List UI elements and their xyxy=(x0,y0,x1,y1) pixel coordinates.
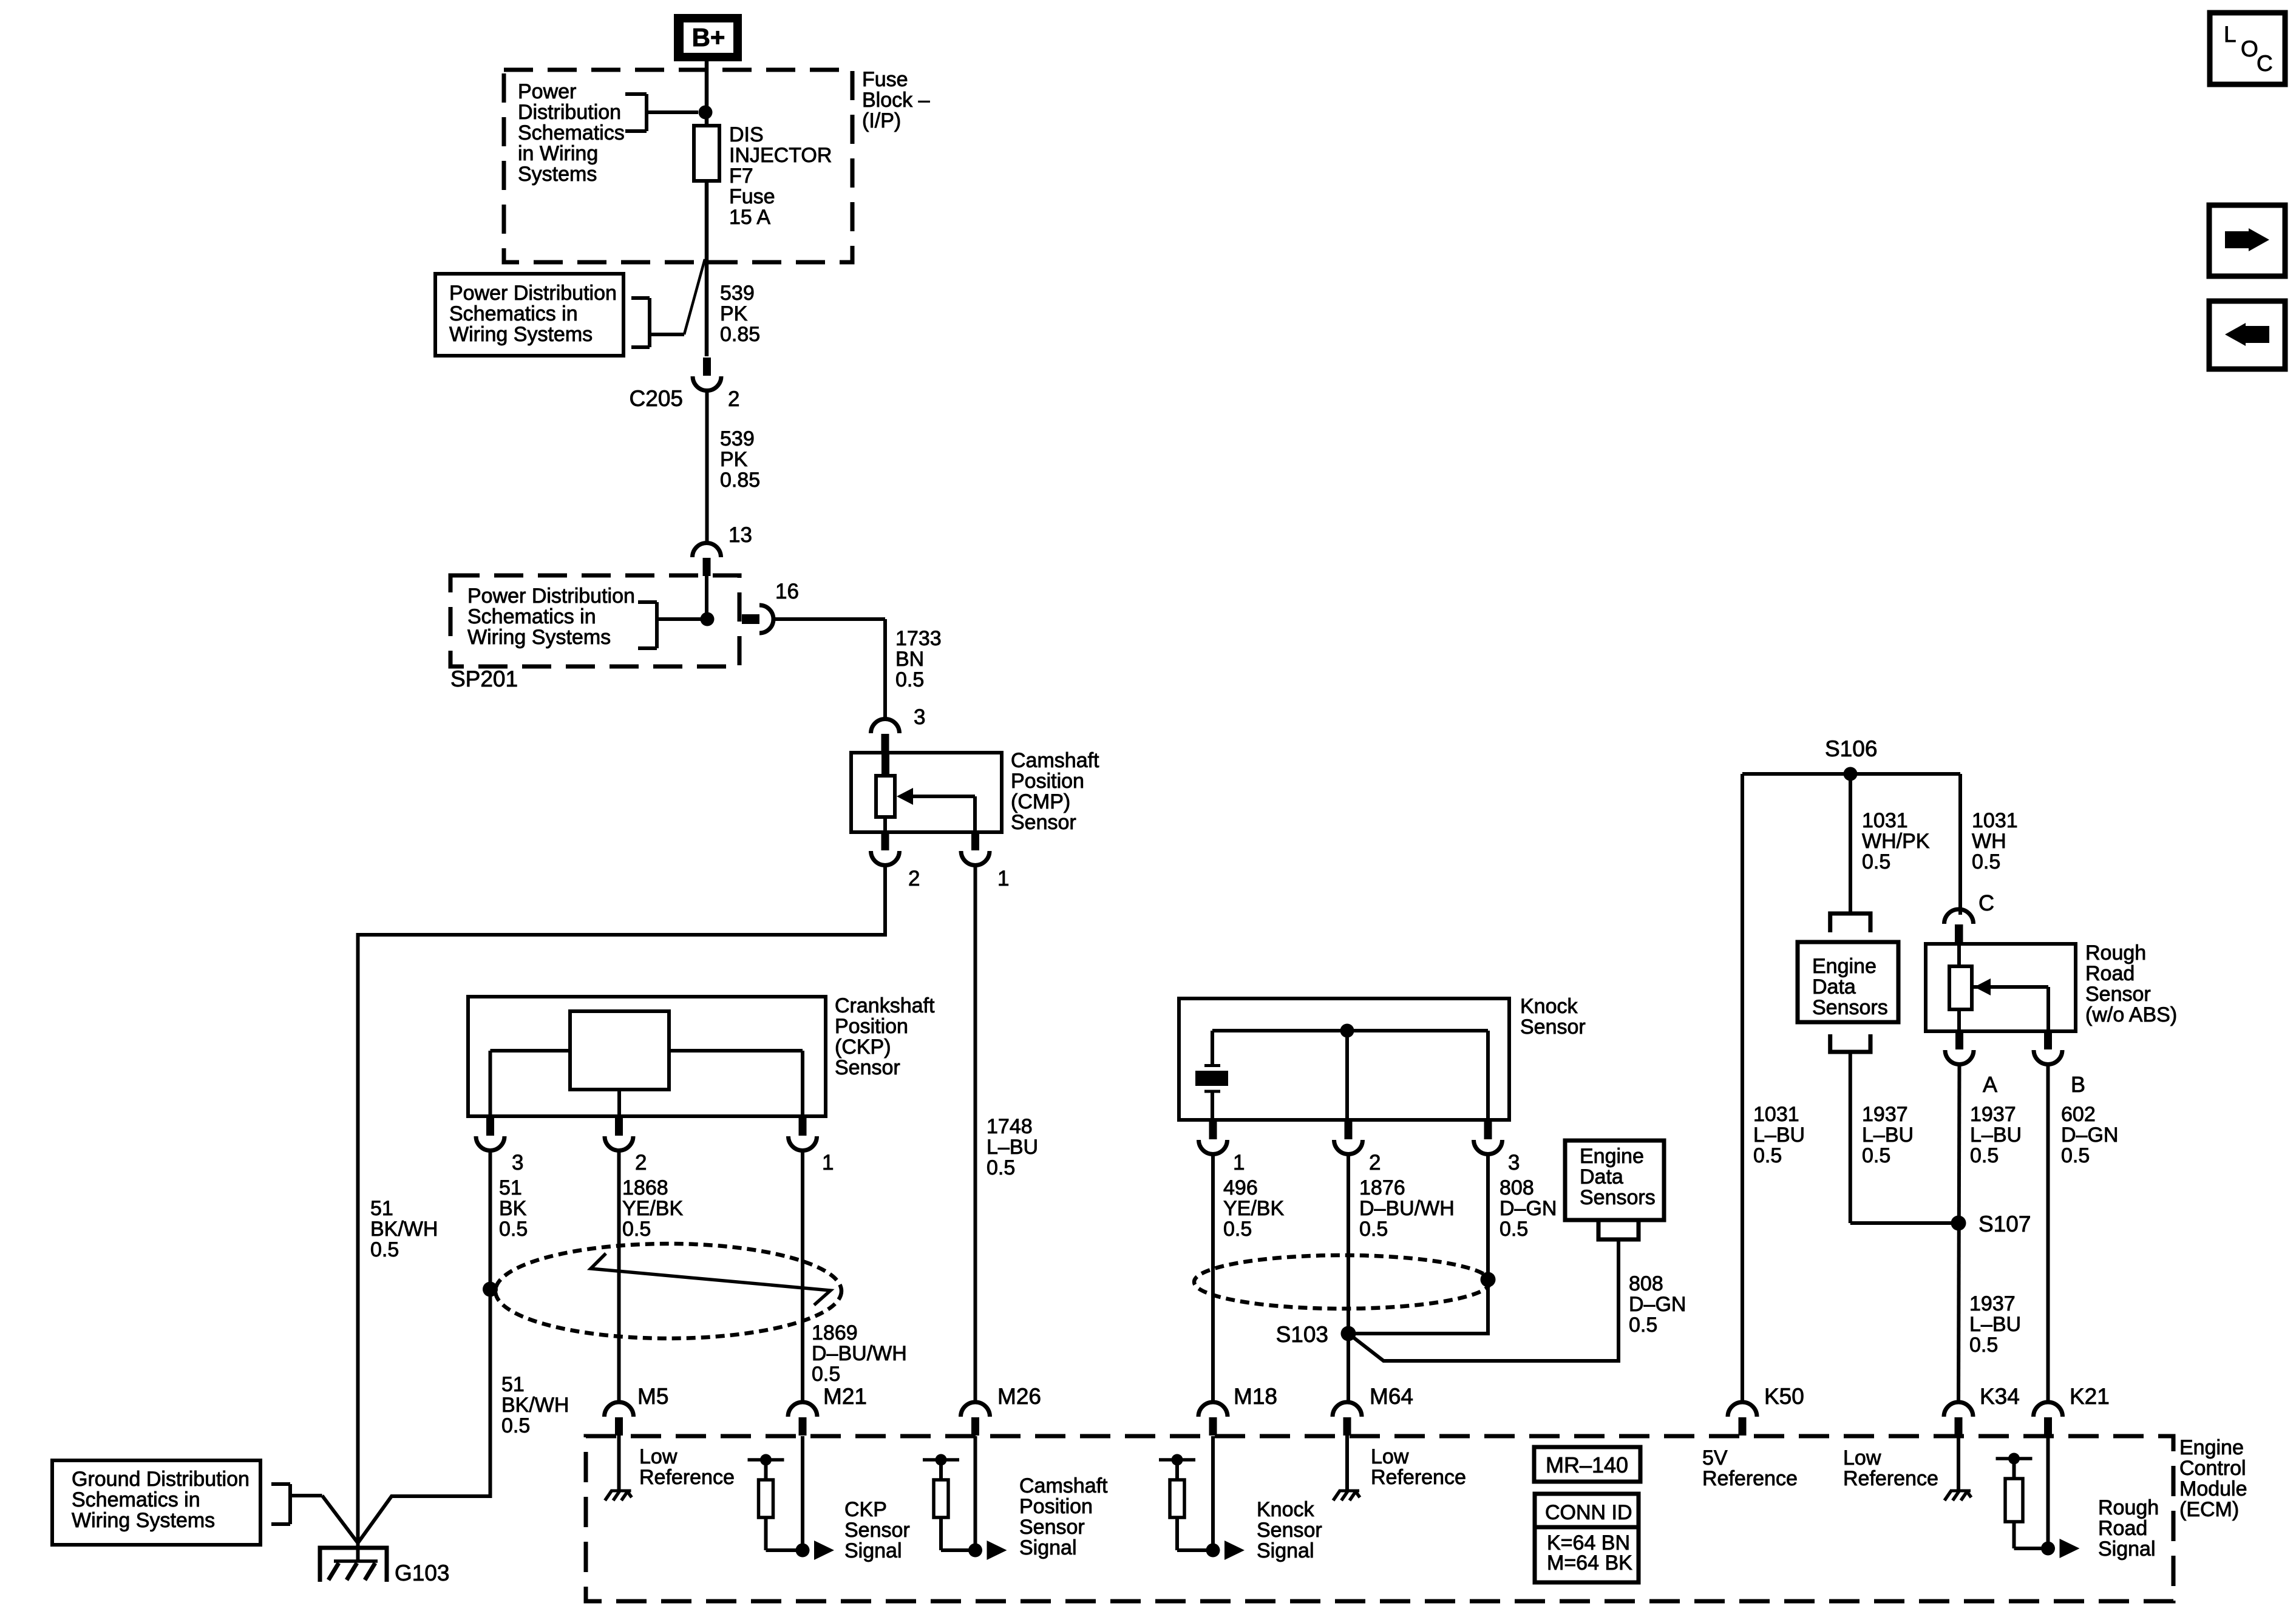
svg-text:in Wiring: in Wiring xyxy=(518,142,598,165)
svg-text:C: C xyxy=(2257,51,2273,76)
svg-text:13: 13 xyxy=(729,523,752,547)
svg-text:Signal: Signal xyxy=(844,1539,902,1562)
svg-text:Ground Distribution: Ground Distribution xyxy=(72,1468,250,1491)
svg-text:(I/P): (I/P) xyxy=(862,109,901,132)
svg-text:Sensors: Sensors xyxy=(1812,996,1888,1019)
svg-text:Systems: Systems xyxy=(518,163,597,186)
svg-text:Schematics in: Schematics in xyxy=(467,605,596,628)
svg-text:C: C xyxy=(1978,890,1994,915)
svg-text:1733: 1733 xyxy=(895,627,942,650)
svg-text:SP201: SP201 xyxy=(450,666,518,691)
svg-text:YE/BK: YE/BK xyxy=(622,1197,683,1220)
svg-text:M18: M18 xyxy=(1234,1384,1277,1409)
svg-text:3: 3 xyxy=(512,1151,523,1175)
svg-text:1937: 1937 xyxy=(1970,1103,2016,1126)
svg-text:Wiring Systems: Wiring Systems xyxy=(467,626,611,649)
svg-text:M5: M5 xyxy=(637,1384,668,1409)
svg-text:539: 539 xyxy=(720,427,755,450)
svg-text:Schematics: Schematics xyxy=(518,121,625,144)
svg-text:B: B xyxy=(2071,1072,2085,1097)
svg-text:Power: Power xyxy=(518,80,576,103)
svg-text:S107: S107 xyxy=(1978,1212,2031,1236)
svg-text:1031: 1031 xyxy=(1972,809,2018,832)
svg-text:Position: Position xyxy=(1011,770,1084,793)
svg-text:BK: BK xyxy=(499,1197,527,1220)
svg-text:D–BU/WH: D–BU/WH xyxy=(1359,1197,1455,1220)
svg-text:Knock: Knock xyxy=(1520,995,1578,1018)
svg-text:K34: K34 xyxy=(1980,1384,2020,1409)
svg-text:Engine: Engine xyxy=(1580,1145,1644,1168)
svg-text:808: 808 xyxy=(1500,1176,1534,1199)
svg-text:1: 1 xyxy=(822,1151,834,1175)
svg-text:L–BU: L–BU xyxy=(1862,1124,1914,1147)
svg-text:0.5: 0.5 xyxy=(987,1156,1015,1179)
svg-text:Sensor: Sensor xyxy=(1520,1015,1586,1039)
svg-text:Low: Low xyxy=(1843,1446,1881,1470)
svg-text:1876: 1876 xyxy=(1359,1176,1405,1199)
svg-text:Position: Position xyxy=(1019,1495,1093,1518)
svg-text:BK/WH: BK/WH xyxy=(501,1394,569,1417)
svg-text:Wiring Systems: Wiring Systems xyxy=(449,323,593,346)
svg-text:Knock: Knock xyxy=(1257,1498,1314,1521)
svg-text:Power Distribution: Power Distribution xyxy=(449,282,617,305)
svg-text:0.85: 0.85 xyxy=(720,323,760,346)
svg-text:S103: S103 xyxy=(1276,1322,1328,1347)
svg-text:1748: 1748 xyxy=(987,1115,1033,1138)
svg-text:0.5: 0.5 xyxy=(812,1363,840,1386)
svg-text:Engine: Engine xyxy=(1812,955,1877,978)
svg-text:Position: Position xyxy=(835,1015,908,1038)
svg-text:0.5: 0.5 xyxy=(2061,1144,2090,1167)
svg-text:Sensors: Sensors xyxy=(1580,1186,1656,1209)
svg-text:Power Distribution: Power Distribution xyxy=(467,585,635,608)
svg-text:Reference: Reference xyxy=(1843,1467,1938,1490)
svg-text:Block –: Block – xyxy=(862,89,930,112)
svg-text:2: 2 xyxy=(635,1151,647,1175)
svg-text:0.5: 0.5 xyxy=(1359,1218,1388,1241)
svg-text:Crankshaft: Crankshaft xyxy=(835,994,935,1017)
svg-text:L–BU: L–BU xyxy=(1970,1124,2022,1147)
svg-text:B+: B+ xyxy=(692,23,725,52)
svg-text:L: L xyxy=(2224,22,2237,47)
svg-text:0.5: 0.5 xyxy=(370,1238,399,1261)
svg-text:D–BU/WH: D–BU/WH xyxy=(812,1342,907,1365)
svg-text:G103: G103 xyxy=(395,1561,450,1585)
svg-text:0.5: 0.5 xyxy=(1223,1218,1252,1241)
svg-text:0.5: 0.5 xyxy=(1969,1334,1998,1357)
svg-text:1937: 1937 xyxy=(1969,1292,2016,1315)
svg-text:(CKP): (CKP) xyxy=(835,1036,891,1059)
svg-text:YE/BK: YE/BK xyxy=(1223,1197,1284,1220)
svg-text:Reference: Reference xyxy=(639,1466,735,1489)
svg-text:Distribution: Distribution xyxy=(518,101,621,124)
svg-text:Sensor: Sensor xyxy=(835,1056,900,1079)
svg-text:Signal: Signal xyxy=(1019,1536,1077,1559)
svg-text:3: 3 xyxy=(1508,1151,1520,1175)
svg-text:WH/PK: WH/PK xyxy=(1862,830,1930,853)
svg-text:Sensor: Sensor xyxy=(2085,983,2151,1006)
svg-text:Low: Low xyxy=(1371,1445,1409,1468)
svg-text:16: 16 xyxy=(775,580,799,603)
svg-text:MR–140: MR–140 xyxy=(1546,1453,1628,1477)
svg-text:Data: Data xyxy=(1812,975,1856,998)
svg-text:539: 539 xyxy=(720,282,755,305)
svg-text:M=64 BK: M=64 BK xyxy=(1547,1551,1632,1575)
svg-text:Module: Module xyxy=(2179,1477,2247,1500)
svg-text:2: 2 xyxy=(728,387,739,411)
svg-text:5V: 5V xyxy=(1702,1446,1728,1470)
svg-text:15 A: 15 A xyxy=(729,206,770,229)
svg-text:Schematics in: Schematics in xyxy=(449,302,578,325)
svg-text:M21: M21 xyxy=(823,1384,867,1409)
svg-text:3: 3 xyxy=(914,705,925,729)
svg-text:M64: M64 xyxy=(1370,1384,1413,1409)
svg-text:CONN ID: CONN ID xyxy=(1545,1501,1632,1524)
svg-text:PK: PK xyxy=(720,302,748,325)
svg-text:0.5: 0.5 xyxy=(1629,1314,1657,1337)
svg-text:L–BU: L–BU xyxy=(1753,1124,1805,1147)
svg-text:51: 51 xyxy=(370,1197,393,1220)
svg-text:Road: Road xyxy=(2085,962,2135,985)
svg-text:0.5: 0.5 xyxy=(895,668,924,691)
svg-text:Rough: Rough xyxy=(2098,1496,2159,1519)
svg-text:0.5: 0.5 xyxy=(1972,850,2000,873)
svg-text:(ECM): (ECM) xyxy=(2179,1498,2239,1521)
svg-text:Sensor: Sensor xyxy=(844,1519,910,1542)
svg-text:2: 2 xyxy=(908,867,920,890)
svg-text:808: 808 xyxy=(1629,1272,1663,1295)
svg-text:O: O xyxy=(2241,36,2258,61)
svg-text:D–GN: D–GN xyxy=(2061,1124,2118,1147)
svg-text:Wiring Systems: Wiring Systems xyxy=(72,1509,215,1532)
svg-text:D–GN: D–GN xyxy=(1629,1293,1686,1316)
svg-text:A: A xyxy=(1983,1072,1997,1097)
svg-text:51: 51 xyxy=(499,1176,522,1199)
svg-text:Rough: Rough xyxy=(2085,941,2146,964)
svg-text:1: 1 xyxy=(1233,1151,1245,1175)
svg-text:0.5: 0.5 xyxy=(1970,1144,1999,1167)
svg-text:CKP: CKP xyxy=(844,1498,887,1521)
svg-text:602: 602 xyxy=(2061,1103,2096,1126)
svg-text:Sensor: Sensor xyxy=(1257,1519,1322,1542)
svg-text:INJECTOR: INJECTOR xyxy=(729,144,832,167)
svg-text:F7: F7 xyxy=(729,164,753,188)
svg-text:Signal: Signal xyxy=(1257,1539,1314,1562)
svg-text:Camshaft: Camshaft xyxy=(1019,1474,1108,1497)
svg-text:0.5: 0.5 xyxy=(501,1414,530,1437)
svg-text:0.5: 0.5 xyxy=(499,1218,528,1241)
svg-text:BK/WH: BK/WH xyxy=(370,1218,438,1241)
svg-text:Schematics in: Schematics in xyxy=(72,1488,200,1511)
svg-text:Data: Data xyxy=(1580,1165,1623,1188)
svg-text:Camshaft: Camshaft xyxy=(1011,749,1099,772)
svg-text:S106: S106 xyxy=(1825,736,1877,761)
svg-text:C205: C205 xyxy=(630,386,683,411)
svg-text:0.5: 0.5 xyxy=(1753,1144,1782,1167)
svg-text:(w/o ABS): (w/o ABS) xyxy=(2085,1003,2177,1026)
svg-text:M26: M26 xyxy=(997,1384,1041,1409)
svg-text:Fuse: Fuse xyxy=(729,185,775,208)
svg-text:2: 2 xyxy=(1369,1151,1381,1175)
svg-text:0.5: 0.5 xyxy=(1862,1144,1890,1167)
svg-text:Signal: Signal xyxy=(2098,1537,2156,1561)
svg-text:1868: 1868 xyxy=(622,1176,668,1199)
svg-text:Reference: Reference xyxy=(1371,1466,1466,1489)
svg-text:D–GN: D–GN xyxy=(1500,1197,1557,1220)
svg-text:Sensor: Sensor xyxy=(1019,1516,1085,1539)
svg-text:Engine: Engine xyxy=(2179,1436,2244,1459)
svg-text:Low: Low xyxy=(639,1445,678,1468)
svg-text:496: 496 xyxy=(1223,1176,1258,1199)
svg-text:PK: PK xyxy=(720,448,748,471)
svg-text:K21: K21 xyxy=(2070,1384,2110,1409)
svg-text:L–BU: L–BU xyxy=(1969,1313,2021,1336)
svg-text:Control: Control xyxy=(2179,1457,2246,1480)
svg-text:Fuse: Fuse xyxy=(862,68,908,91)
svg-text:K50: K50 xyxy=(1764,1384,1804,1409)
svg-text:WH: WH xyxy=(1972,830,2006,853)
svg-text:Reference: Reference xyxy=(1702,1467,1798,1490)
svg-text:1031: 1031 xyxy=(1753,1103,1799,1126)
svg-text:(CMP): (CMP) xyxy=(1011,790,1070,813)
svg-text:0.5: 0.5 xyxy=(1862,850,1890,873)
svg-text:1: 1 xyxy=(997,867,1009,890)
svg-text:Sensor: Sensor xyxy=(1011,811,1076,834)
svg-text:L–BU: L–BU xyxy=(987,1136,1038,1159)
svg-text:0.5: 0.5 xyxy=(622,1218,651,1241)
svg-text:0.5: 0.5 xyxy=(1500,1218,1528,1241)
svg-text:DIS: DIS xyxy=(729,123,764,146)
svg-text:51: 51 xyxy=(501,1373,525,1396)
svg-text:0.85: 0.85 xyxy=(720,469,760,492)
svg-text:1031: 1031 xyxy=(1862,809,1908,832)
svg-text:Road: Road xyxy=(2098,1517,2147,1540)
svg-text:1937: 1937 xyxy=(1862,1103,1908,1126)
svg-text:1869: 1869 xyxy=(812,1321,858,1344)
svg-text:BN: BN xyxy=(895,648,924,671)
